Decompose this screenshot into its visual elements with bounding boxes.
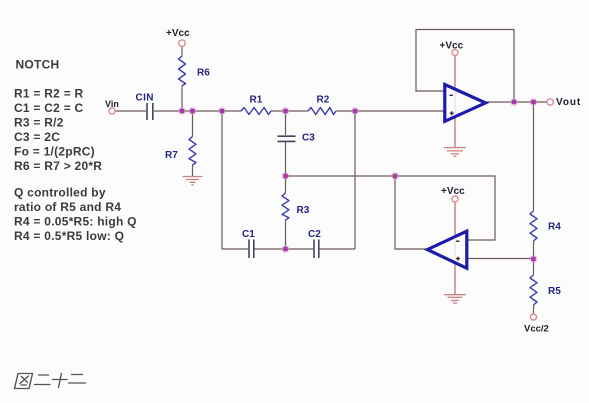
svg-text:Q controlled by: Q controlled by [14, 186, 106, 200]
svg-text:R4 = 0.05*R5: high Q: R4 = 0.05*R5: high Q [14, 215, 137, 229]
svg-text:+Vcc: +Vcc [441, 186, 465, 197]
svg-text:C1: C1 [242, 229, 255, 240]
svg-text:C1 = C2 = C: C1 = C2 = C [14, 101, 84, 115]
svg-text:R1 = R2 = R: R1 = R2 = R [14, 87, 84, 101]
svg-text:+Vcc: +Vcc [166, 28, 190, 39]
svg-text:R3 = R/2: R3 = R/2 [14, 116, 64, 130]
svg-text:Fo = 1/(2pRC): Fo = 1/(2pRC) [14, 145, 95, 159]
svg-text:NOTCH: NOTCH [16, 58, 60, 72]
svg-text:C2: C2 [308, 229, 321, 240]
svg-text:R4 = 0.5*R5 low: Q: R4 = 0.5*R5 low: Q [14, 229, 124, 243]
svg-text:C3: C3 [302, 133, 315, 144]
svg-text:R2: R2 [317, 95, 330, 106]
svg-text:ratio of R5 and R4: ratio of R5 and R4 [14, 200, 121, 214]
svg-text:R5: R5 [548, 286, 561, 297]
svg-text:Vin: Vin [105, 99, 119, 109]
svg-text:R6: R6 [197, 68, 210, 79]
svg-text:R4: R4 [548, 222, 561, 233]
svg-text:CIN: CIN [136, 93, 154, 104]
svg-text:R3: R3 [297, 205, 310, 216]
svg-text:R7: R7 [165, 150, 178, 161]
svg-text:Vout: Vout [556, 97, 581, 108]
svg-text:Vcc/2: Vcc/2 [524, 324, 549, 335]
svg-text:+Vcc: +Vcc [440, 40, 464, 51]
svg-text:C3 = 2C: C3 = 2C [14, 130, 60, 144]
svg-text:R6 = R7 > 20*R: R6 = R7 > 20*R [14, 159, 102, 173]
svg-text:R1: R1 [250, 95, 263, 106]
